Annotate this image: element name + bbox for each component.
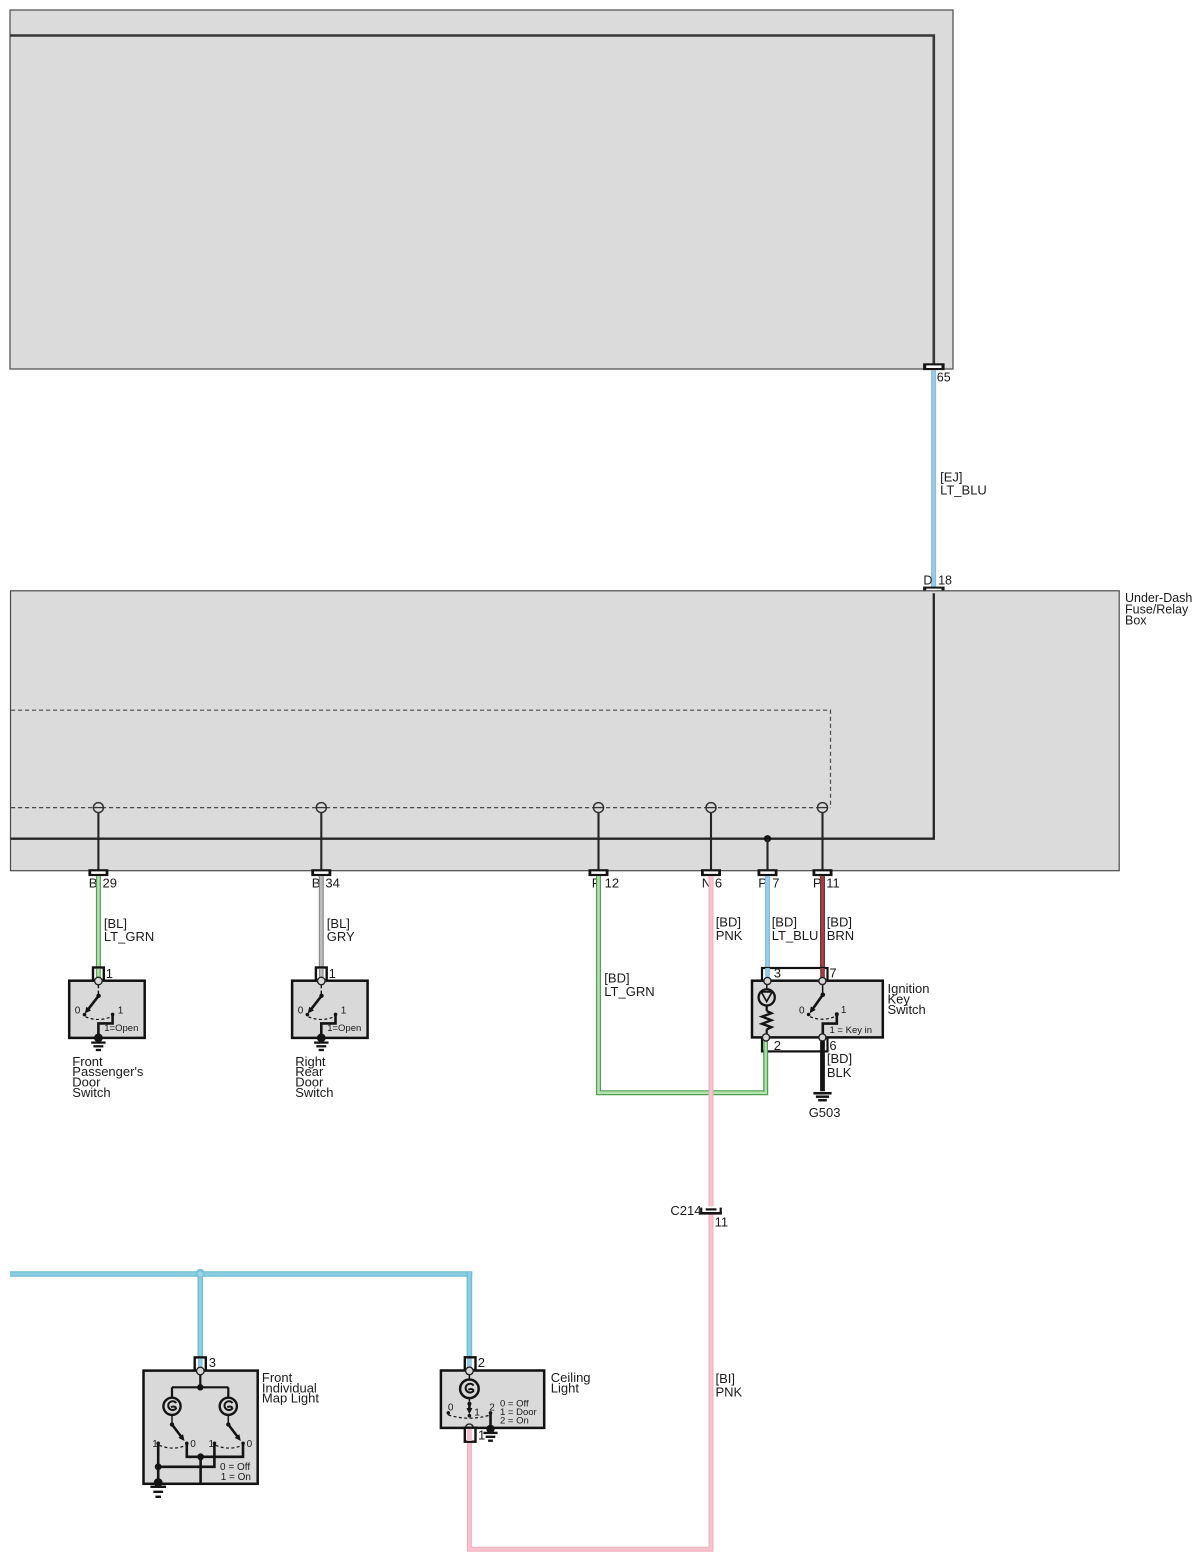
svg-text:Box: Box [1125, 614, 1147, 628]
svg-text:PNK: PNK [716, 1384, 743, 1399]
svg-text:2: 2 [774, 1038, 781, 1053]
svg-text:Switch: Switch [72, 1085, 110, 1100]
svg-text:65: 65 [937, 370, 951, 384]
svg-text:[BD]: [BD] [827, 1051, 852, 1066]
svg-text:D: D [923, 574, 932, 588]
svg-text:7: 7 [772, 876, 779, 891]
svg-text:G503: G503 [809, 1105, 841, 1120]
svg-text:11: 11 [715, 1214, 729, 1229]
svg-text:Switch: Switch [295, 1085, 333, 1100]
svg-text:1=Open: 1=Open [104, 1023, 138, 1034]
svg-text:0: 0 [799, 1005, 805, 1016]
svg-text:LT_GRN: LT_GRN [104, 929, 154, 944]
svg-text:34: 34 [325, 876, 339, 891]
svg-text:7: 7 [829, 966, 836, 981]
svg-text:BLK: BLK [827, 1065, 852, 1080]
svg-text:2: 2 [478, 1355, 485, 1370]
svg-text:12: 12 [605, 876, 619, 891]
svg-text:1 = Key in: 1 = Key in [830, 1025, 873, 1036]
svg-text:LT_GRN: LT_GRN [604, 984, 654, 999]
svg-text:0: 0 [75, 1006, 81, 1017]
svg-text:0: 0 [190, 1439, 196, 1450]
svg-text:LT_BLU: LT_BLU [940, 482, 987, 497]
svg-text:Map Light: Map Light [262, 1391, 319, 1406]
svg-text:1=Open: 1=Open [327, 1023, 361, 1034]
svg-text:1: 1 [478, 1428, 485, 1443]
svg-text:2: 2 [489, 1402, 495, 1413]
svg-text:1 = On: 1 = On [221, 1472, 251, 1483]
svg-text:0 = Off: 0 = Off [220, 1462, 250, 1473]
svg-text:2 = On: 2 = On [500, 1416, 529, 1427]
svg-text:PNK: PNK [716, 928, 743, 943]
svg-text:BRN: BRN [827, 928, 854, 943]
svg-text:1: 1 [118, 1006, 124, 1017]
svg-text:1: 1 [341, 1006, 347, 1017]
svg-text:11: 11 [826, 876, 840, 891]
svg-text:0: 0 [448, 1403, 454, 1414]
svg-text:1: 1 [106, 966, 113, 981]
svg-text:LT_BLU: LT_BLU [772, 928, 819, 943]
svg-text:0: 0 [298, 1006, 304, 1017]
svg-text:Light: Light [551, 1380, 580, 1395]
svg-text:Switch: Switch [888, 1002, 926, 1017]
svg-text:1: 1 [841, 1005, 847, 1016]
svg-text:1: 1 [474, 1407, 480, 1418]
svg-text:3: 3 [774, 966, 781, 981]
svg-text:6: 6 [715, 876, 722, 891]
svg-text:18: 18 [938, 574, 952, 588]
svg-text:0: 0 [247, 1439, 253, 1450]
svg-text:29: 29 [103, 876, 117, 891]
svg-text:3: 3 [209, 1355, 216, 1370]
svg-text:GRY: GRY [327, 929, 355, 944]
svg-text:1: 1 [329, 966, 336, 981]
svg-text:C214: C214 [670, 1203, 701, 1218]
